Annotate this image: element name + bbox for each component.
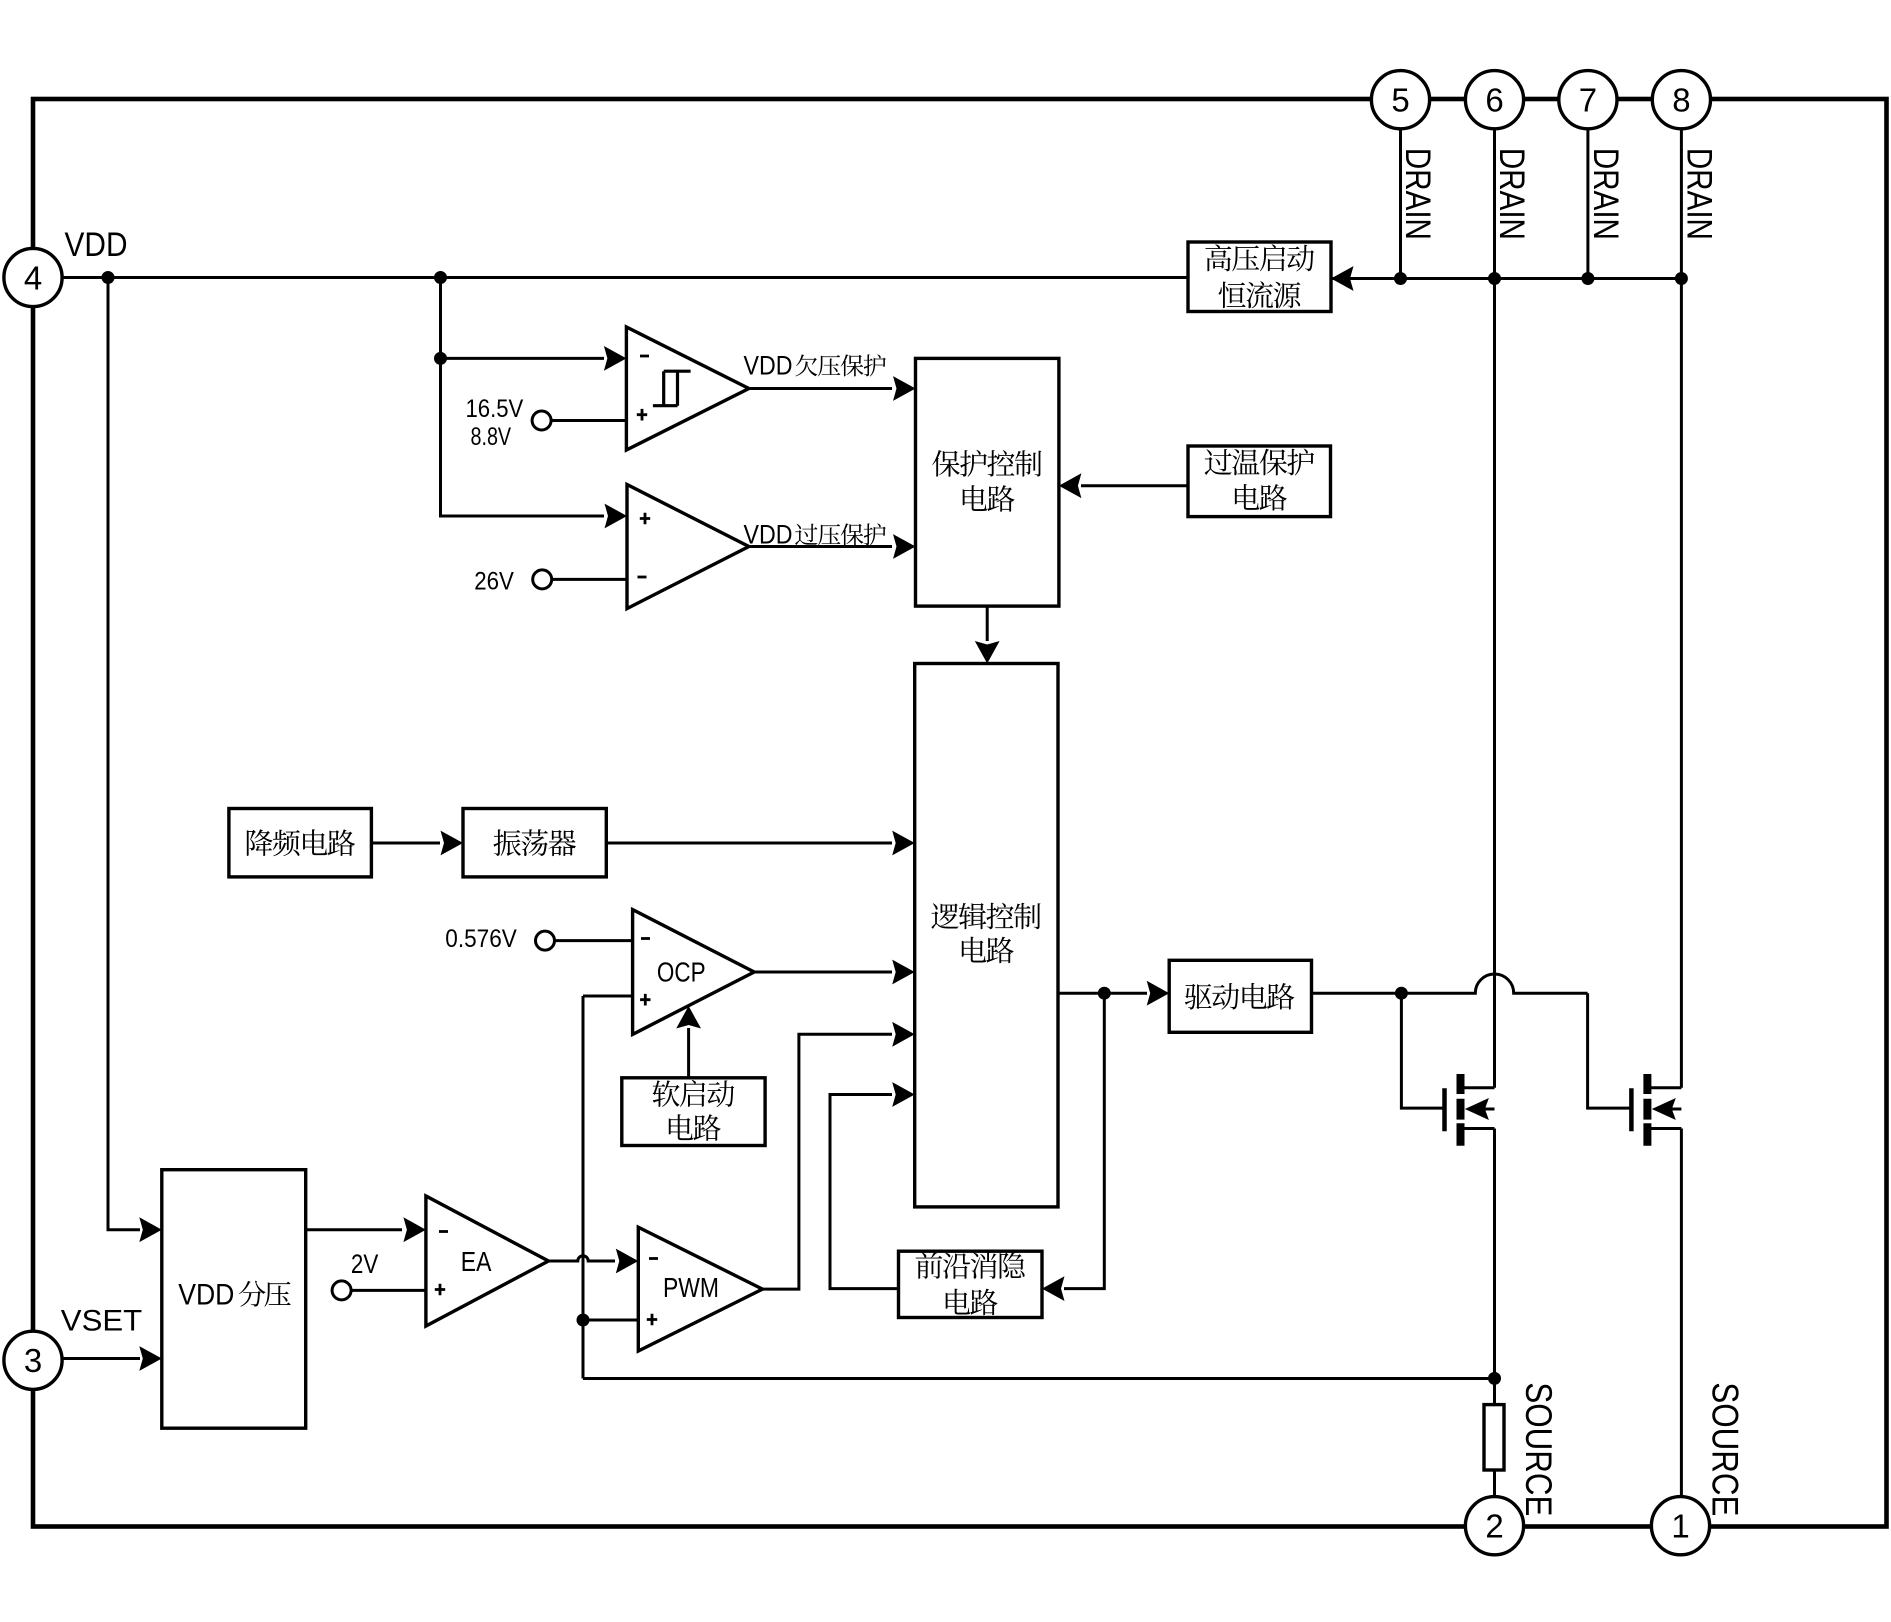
wire 26V reference to OVP - input bbox=[552, 578, 627, 581]
arrowhead PWM into logic block bbox=[892, 1022, 915, 1047]
transistor Q1 source lead bbox=[1461, 1127, 1495, 1130]
wire driver output gate line with hop bbox=[1312, 974, 1587, 993]
transistor Q1 body line bbox=[1470, 1108, 1495, 1111]
pin 7 DRAIN bbox=[1559, 71, 1617, 129]
comparator OCP bbox=[633, 910, 755, 1035]
arrowhead logic into driver bbox=[1147, 981, 1170, 1006]
wire 0.576V reference to OCP - input bbox=[555, 939, 633, 942]
transistor Q2 body line bbox=[1657, 1108, 1682, 1111]
junction node current sense feedback bbox=[1488, 1372, 1501, 1385]
arrowhead VSET into VDD divider bbox=[139, 1346, 162, 1371]
block soft start circuit bbox=[622, 1078, 765, 1146]
svg-text:VSET: VSET bbox=[61, 1305, 142, 1338]
minus sign OCP bbox=[641, 937, 650, 940]
wire EA output to PWM - input with hop bbox=[549, 1256, 616, 1261]
transistor Q2 drain lead bbox=[1647, 1086, 1681, 1089]
svg-text:VDD: VDD bbox=[744, 351, 793, 381]
junction node drain pin7 bbox=[1581, 272, 1594, 285]
svg-text:SOURCE: SOURCE bbox=[1704, 1382, 1746, 1516]
wire soft start to OCP bbox=[687, 1028, 690, 1078]
block high-voltage startup current source bbox=[1188, 242, 1331, 312]
junction node on VDD rail (to VDD divider) bbox=[102, 271, 115, 284]
junction node drain pin6 bbox=[1488, 272, 1501, 285]
wire VDD rail from pin 4 to HV startup block bbox=[61, 276, 1188, 279]
svg-text:4: 4 bbox=[24, 259, 42, 296]
wire blanking to logic block bbox=[830, 1095, 899, 1289]
wire comparator sense drop bbox=[441, 278, 605, 517]
transistor Q1 gate bar bbox=[1442, 1088, 1447, 1131]
block overtemperature protection circuit bbox=[1188, 446, 1331, 517]
block protection control circuit bbox=[916, 358, 1059, 606]
plus sign PWM bbox=[647, 1314, 657, 1326]
svg-text:VDD: VDD bbox=[65, 226, 128, 264]
svg-text:OCP: OCP bbox=[657, 957, 706, 988]
terminal circle 2V reference bbox=[332, 1281, 351, 1300]
wire OCP + input from current sense bbox=[583, 995, 633, 998]
wire UVLO output to protection block bbox=[749, 387, 892, 390]
svg-text:VDD: VDD bbox=[178, 1278, 234, 1311]
transistor Q1 channel segments bbox=[1457, 1074, 1465, 1146]
arrowhead OTP into protection block bbox=[1059, 473, 1082, 498]
junction node comparator sense split bbox=[434, 352, 447, 365]
transistor Q1 drain lead bbox=[1461, 1086, 1495, 1089]
junction node drain pin8 bbox=[1675, 272, 1688, 285]
svg-text:2V: 2V bbox=[351, 1249, 378, 1279]
svg-text:8: 8 bbox=[1672, 82, 1690, 119]
junction node on VDD rail (to comparators) bbox=[434, 271, 447, 284]
svg-text:DRAIN: DRAIN bbox=[1492, 148, 1532, 240]
arrowhead into blanking circuit right side bbox=[1042, 1276, 1065, 1301]
pin 2 SOURCE bbox=[1465, 1497, 1523, 1555]
wire drain pin5 to collector bbox=[1399, 129, 1402, 279]
block leading edge blanking circuit bbox=[899, 1251, 1043, 1317]
pin 8 DRAIN bbox=[1652, 71, 1710, 129]
wire OVP output to protection block bbox=[749, 545, 892, 548]
arrowhead OVP output into protection block bbox=[893, 534, 916, 559]
arrowhead protection into logic block bbox=[975, 641, 1000, 664]
minus sign UVLO bbox=[640, 355, 649, 358]
svg-text:VDD: VDD bbox=[744, 520, 793, 550]
wire resistor to pin 2 bbox=[1493, 1470, 1496, 1497]
plus sign OVP bbox=[640, 513, 650, 525]
transistor Q2 gate bar bbox=[1629, 1088, 1634, 1131]
svg-text:DRAIN: DRAIN bbox=[1586, 148, 1626, 240]
wire protection block to logic block bbox=[986, 606, 989, 641]
block frequency reduction circuit bbox=[229, 809, 372, 877]
wire OTP output to protection block bbox=[1081, 484, 1188, 487]
junction node drain pin5 bbox=[1394, 272, 1407, 285]
terminal circle 16.5V/8.8V reference bbox=[532, 411, 551, 430]
wire drain pin8 down to Q2 bbox=[1680, 129, 1683, 1088]
block VDD divider bbox=[162, 1170, 306, 1429]
transistor Q1 body arrow bbox=[1465, 1098, 1489, 1120]
arrowhead OCP output into logic block bbox=[892, 960, 915, 985]
svg-text:DRAIN: DRAIN bbox=[1679, 148, 1719, 240]
wire VSET to VDD divider bbox=[62, 1357, 140, 1360]
minus sign EA bbox=[439, 1230, 448, 1233]
arrowhead drain line into HV startup block bbox=[1331, 266, 1354, 291]
minus sign OVP bbox=[638, 576, 647, 579]
wire driver tap to blanking circuit bbox=[1064, 993, 1104, 1288]
wire 2V reference to EA + input bbox=[351, 1289, 426, 1292]
svg-text:2: 2 bbox=[1485, 1508, 1503, 1545]
pin 6 DRAIN bbox=[1465, 71, 1523, 129]
plus sign EA bbox=[435, 1284, 445, 1296]
svg-text:DRAIN: DRAIN bbox=[1398, 148, 1438, 240]
plus sign UVLO bbox=[637, 409, 647, 421]
svg-text:EA: EA bbox=[461, 1246, 492, 1277]
svg-text:26V: 26V bbox=[474, 568, 514, 596]
block oscillator bbox=[463, 809, 606, 877]
arrowhead UVLO output into protection block bbox=[893, 376, 916, 401]
wire 16.5V reference to UVLO + input bbox=[551, 419, 626, 422]
wire freq-reduction to oscillator bbox=[371, 842, 440, 845]
svg-text:5: 5 bbox=[1391, 82, 1409, 119]
wire drain pin7 to collector bbox=[1586, 129, 1589, 279]
junction node driver input tap bbox=[1098, 987, 1111, 1000]
svg-text:16.5V: 16.5V bbox=[466, 395, 524, 423]
svg-text:PWM: PWM bbox=[663, 1272, 719, 1303]
junction node gate line Q1 bbox=[1395, 987, 1408, 1000]
wire logic block to driver bbox=[1058, 992, 1147, 995]
comparator PWM bbox=[638, 1227, 762, 1351]
wire PWM + input bbox=[583, 1319, 638, 1322]
arrowhead into VDD divider top input bbox=[139, 1217, 162, 1242]
svg-text:8.8V: 8.8V bbox=[471, 423, 512, 451]
arrowhead soft start into OCP bbox=[676, 1006, 701, 1029]
svg-text:SOURCE: SOURCE bbox=[1518, 1382, 1560, 1516]
comparator EA error amplifier bbox=[426, 1196, 549, 1326]
svg-text:0.576V: 0.576V bbox=[445, 925, 517, 953]
transistor Q2 channel segments bbox=[1643, 1074, 1651, 1146]
block logic control circuit bbox=[915, 664, 1058, 1207]
arrowhead into UVLO - input bbox=[604, 346, 627, 371]
comparator UVLO (16.5V/8.8V hysteresis) bbox=[626, 327, 749, 450]
wire drain collector line bbox=[1331, 277, 1681, 280]
wire Q2 source down to pin 1 bbox=[1680, 1129, 1683, 1497]
wire current sense riser bbox=[582, 996, 585, 1379]
minus sign PWM bbox=[649, 1257, 658, 1260]
wire gate drop Q2 bbox=[1588, 993, 1632, 1108]
pin 1 SOURCE bbox=[1651, 1497, 1709, 1555]
wire OCP output to logic block bbox=[754, 971, 892, 974]
svg-text:3: 3 bbox=[24, 1342, 42, 1379]
wire UVLO inverting input feed bbox=[441, 357, 605, 360]
pin 5 DRAIN bbox=[1371, 71, 1429, 129]
transistor Q2 body arrow bbox=[1652, 1098, 1676, 1120]
block driver circuit bbox=[1169, 960, 1311, 1032]
terminal circle 0.576V reference bbox=[536, 931, 555, 950]
wire Q1 source down to sense resistor bbox=[1493, 1129, 1496, 1405]
svg-text:1: 1 bbox=[1671, 1508, 1689, 1545]
svg-text:6: 6 bbox=[1485, 82, 1503, 119]
wire VDD drop to VDD divider input bbox=[108, 278, 140, 1230]
wire VDD divider output to EA - input bbox=[306, 1228, 402, 1231]
hysteresis symbol inside UVLO bbox=[653, 371, 691, 406]
transistor Q2 source lead bbox=[1647, 1127, 1681, 1130]
svg-text:7: 7 bbox=[1579, 82, 1597, 119]
arrowhead oscillator into logic block bbox=[892, 831, 915, 856]
comparator OVP (26V) bbox=[627, 485, 749, 609]
wire PWM output to logic block bbox=[763, 1034, 893, 1289]
pin 3 VSET bbox=[4, 1331, 62, 1389]
arrowhead EA output into PWM - input bbox=[616, 1249, 639, 1274]
arrowhead blanking into logic block bbox=[892, 1082, 915, 1107]
arrowhead into EA - input bbox=[403, 1217, 426, 1242]
wire current sense feedback line bbox=[583, 1377, 1495, 1380]
plus sign OCP bbox=[640, 994, 650, 1006]
junction node PWM + tap bbox=[577, 1314, 590, 1327]
arrowhead into OVP + input bbox=[605, 504, 628, 529]
pin 4 VDD bbox=[4, 248, 62, 306]
terminal circle 26V reference bbox=[533, 570, 552, 589]
wire drain pin6 down to Q1 bbox=[1493, 129, 1496, 1088]
wire oscillator to logic block bbox=[606, 842, 892, 845]
resistor R1 current sense bbox=[1484, 1405, 1504, 1470]
wire gate drop Q1 bbox=[1401, 993, 1444, 1108]
arrowhead into oscillator bbox=[441, 831, 464, 856]
